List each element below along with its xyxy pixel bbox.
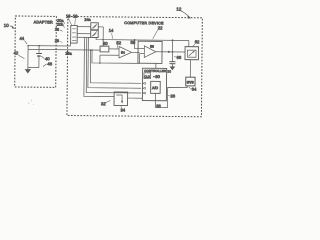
upper contact to divider top <box>98 27 103 46</box>
op-amp 54 <box>99 46 131 64</box>
svg-text:56: 56 <box>150 45 154 49</box>
svg-text:46: 46 <box>47 61 52 66</box>
reference wire from bus <box>135 40 145 49</box>
A/D to bottom wire <box>154 93 156 100</box>
svg-text:28: 28 <box>55 39 59 43</box>
node junction on wire B <box>90 49 92 51</box>
svg-text:28a: 28a <box>65 52 72 56</box>
svg-text:32: 32 <box>101 101 106 106</box>
labels 16 / 18 <box>66 13 78 25</box>
controller input arrowheads <box>143 82 146 84</box>
switch to SYS <box>189 60 191 77</box>
controller top stub from comparator <box>155 63 157 68</box>
svg-text:20b: 20b <box>57 23 63 27</box>
svg-text:44: 44 <box>19 36 24 41</box>
svg-text:52: 52 <box>116 40 121 45</box>
svg-text:36: 36 <box>170 93 175 98</box>
node junction on wire B at divider <box>91 49 93 51</box>
wire 32box to controller <box>128 97 143 99</box>
signal arrowhead on output wire <box>168 51 171 53</box>
op1 output to comparator box <box>132 51 140 53</box>
left riser wires to controller <box>84 37 115 96</box>
wire connector to upper contact <box>77 26 90 28</box>
svg-text:54: 54 <box>121 51 125 55</box>
comparator box <box>138 41 162 63</box>
svg-text:CONTROLLER: CONTROLLER <box>144 69 166 73</box>
node junction on bus 14 at gate tap <box>172 39 174 41</box>
svg-text:64: 64 <box>192 87 197 92</box>
contact hatch (upper) <box>92 24 97 29</box>
node junction on bus 14 <box>102 39 104 41</box>
svg-text:26: 26 <box>55 28 59 32</box>
svg-text:~30: ~30 <box>153 74 161 79</box>
label 52 <box>116 40 121 48</box>
contact box lower <box>91 30 99 37</box>
svg-text:CLK: CLK <box>144 75 150 79</box>
labels 20a / 20b with leaders <box>57 19 65 28</box>
bus drop into switch <box>188 40 190 46</box>
svg-text:42: 42 <box>14 50 19 55</box>
label 66 <box>174 55 182 60</box>
connector block <box>71 26 78 44</box>
svg-text:A/D: A/D <box>152 86 158 90</box>
label 44 <box>19 36 27 44</box>
connector pin contacts <box>72 28 76 30</box>
capacitor C66 plates <box>169 61 175 63</box>
node junction at capacitor tap <box>172 51 174 53</box>
svg-text:62: 62 <box>195 39 200 44</box>
svg-text:34: 34 <box>120 108 125 113</box>
resistor box 50 <box>100 46 109 52</box>
svg-text:38: 38 <box>156 104 161 109</box>
gate node vertical with cap 66 <box>171 40 173 61</box>
box 32 <box>101 92 128 113</box>
svg-text:66: 66 <box>177 55 182 60</box>
computer device box (dashed) <box>67 16 202 116</box>
wire comparator lower-input riser <box>139 54 141 64</box>
ground (cap 66) <box>169 66 175 70</box>
bus 14 <box>96 37 189 40</box>
adapter box (dashed) <box>15 16 57 87</box>
label 28 <box>55 39 63 43</box>
wire B (adapter output bottom) <box>28 48 100 51</box>
pin bus wire <box>77 36 90 38</box>
ground (adapter) <box>25 69 31 73</box>
feedback wire SYS to controller <box>155 86 187 108</box>
svg-text:10: 10 <box>4 23 9 28</box>
svg-text:SYS: SYS <box>187 80 195 84</box>
svg-text:ADAPTER: ADAPTER <box>34 20 53 24</box>
SYS box <box>186 77 195 86</box>
label 12 <box>176 7 191 19</box>
comparator output wire <box>156 51 185 53</box>
divider node wire to comparator lower input <box>92 50 140 63</box>
wire connector to lower contact <box>77 33 90 35</box>
op-amp 56 <box>140 44 156 57</box>
node junction on wire A at battery 40 <box>38 45 40 47</box>
switch box 62 <box>185 39 200 60</box>
label 10 <box>4 23 15 29</box>
label 42 <box>14 50 25 58</box>
node junction on bus 14 at reference tap <box>134 39 136 41</box>
svg-text:24a: 24a <box>84 18 91 22</box>
contact box upper <box>91 23 99 30</box>
label 46 <box>43 61 53 66</box>
controller box <box>142 68 166 101</box>
A/D box <box>151 81 161 93</box>
wire A (adapter output top) <box>28 43 70 46</box>
svg-text:14: 14 <box>109 28 114 33</box>
label 22 <box>153 25 163 39</box>
svg-text:22: 22 <box>158 25 163 30</box>
label 26 <box>55 28 63 32</box>
node junction on wire A at terminal 42 <box>27 45 29 47</box>
battery 40 <box>28 46 51 68</box>
svg-text:30: 30 <box>167 70 171 74</box>
node/terminal stub in adapter <box>27 46 29 69</box>
contact hatch (lower) <box>92 31 97 36</box>
label 64 <box>189 87 197 92</box>
label 36 <box>168 93 176 98</box>
faint scan specks <box>28 100 34 105</box>
